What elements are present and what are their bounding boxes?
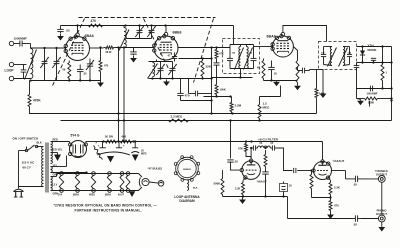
svg-text:600: 600 [122,135,127,139]
svg-text:22K: 22K [206,65,212,69]
filter capacitor C19 electrolytic [118,142,120,148]
V4 pins [69,143,72,146]
switch S1 [26,147,28,150]
variable capacitor C3 antenna tune [54,60,60,62]
svg-text:47K: 47K [219,52,224,56]
trimmer capacitor C11 oscillator [170,67,176,69]
resistor R18 plate load V5 [245,142,247,144]
triode V6 1/2 12AU7 output [314,162,332,180]
wire volume takeoff to audio [230,121,232,159]
IF transformer T2 shield box (dashed) [319,42,357,70]
common negative plate arc of C18/C19 [97,152,130,155]
crystal diode D1 [362,47,364,51]
svg-text:5Y4: 5Y4 [58,193,63,196]
wire grid line V1 [31,47,66,49]
variable capacitor C6 [89,59,91,62]
trimmer capacitor C8 RF tune [137,29,143,31]
svg-text:ON / OFF SWITCH: ON / OFF SWITCH [13,137,39,141]
svg-text:.05: .05 [66,29,71,33]
variable capacitor C2 antenna trim [42,60,48,62]
svg-text:6BA6: 6BA6 [105,193,112,196]
hi-cut hanging resistor [265,150,267,153]
svg-text:500K: 500K [214,182,221,186]
resistor R20 cathode V5 [242,181,244,183]
wire filter to V6 grid [277,148,292,171]
ground [100,81,102,83]
resistor R7 22K oscillator grid [179,58,212,60]
hi-cut hanging capacitor [262,171,268,173]
T1 tuning arrows [235,48,244,70]
rectifier tube V4 5Y4G [70,141,87,158]
svg-text:SHIELD: SHIELD [183,169,191,171]
antenna terminal A2 (loop) [9,62,13,66]
volume control R14 500K [356,89,358,99]
ground [357,99,361,100]
loop antenna lead coil [187,180,189,191]
trimmer capacitor C10 oscillator [158,67,164,69]
svg-text:470: 470 [104,65,109,68]
gang dashed diagonal to oscillator section [194,19,214,83]
RF interstage coil L2 [124,28,126,48]
T2 tuning arrows [328,48,337,67]
ground bus of input section [31,80,101,82]
capacitor C22b grid coupling [293,168,295,173]
filament string bottom rail [51,190,139,192]
svg-text:6BA6: 6BA6 [73,193,80,196]
wire switch to transformer primary [37,146,44,148]
capacitor C7 coupling to ground [133,48,135,51]
ground [381,222,383,225]
svg-text:5Y4 G: 5Y4 G [71,134,81,138]
wire under V3 [264,80,298,82]
oscillator coil L3 [153,63,155,77]
wire plate node to coil bottom [116,47,155,49]
antenna terminal A1 [9,41,13,45]
resistor R21 cathode V6 2.2K [329,178,331,181]
wire jack shield down [381,182,383,215]
wire under R8/C14 [216,68,218,83]
T2 secondary capacitor [347,53,352,55]
wire detector corner down [382,47,384,63]
svg-text:500K: 500K [368,101,374,105]
gang dashed diagonal to RF section [144,19,170,71]
B+ filter line [101,141,134,143]
capacitor C12 padder [177,92,183,94]
filament string top rail [51,176,57,178]
svg-text:2.2K: 2.2K [235,188,240,191]
audio cathode/ground bus [223,196,288,198]
wire RF tank bottom [127,38,152,40]
resistor R15 1K 2W filter [104,141,106,143]
trimmer capacitor C9 RF trim [149,29,155,31]
oscillator section ground wire [149,78,212,80]
svg-text:HI-CU FILTER: HI-CU FILTER [259,138,279,142]
hi-cut filter network [250,148,252,159]
resistor R13 1MEG detector load [382,63,384,65]
vacuum tube V3 6BA6 IF amplifier [272,36,293,57]
wire T2 secondary to detector [357,46,392,48]
resistor R12b screen feed 1.5K [316,87,318,89]
svg-text:*47 BULBS: *47 BULBS [148,167,163,171]
ground [297,85,299,86]
wire T1 secondary to V3 grid [254,46,264,48]
loop antenna bumps [197,172,200,175]
wire V2 cathode to osc section [156,60,158,62]
svg-text:MFD: MFD [141,153,147,156]
svg-text:115 V AC: 115 V AC [22,161,36,165]
vacuum tube V2 6BE6 converter [154,36,178,60]
capacitor C17 bypass [354,64,360,66]
tuning gang dashed link line [79,17,216,19]
T1 bottom internal wire [230,68,254,70]
capacitor C1 1500MMF antenna coupling [19,41,21,47]
ground [166,80,168,82]
capacitor C15b screen bypass [301,68,303,74]
T2 primary capacitor [321,53,326,55]
wire V1 top cap [77,26,79,34]
tuner output jack J1 [362,178,379,180]
AVC bus wire (upper) [30,113,317,115]
vacuum tube V1 6BA6 RF amplifier [66,37,90,61]
T1 secondary capacitor [251,57,257,59]
svg-text:*27KΩ RESISTOR OPTIONAL ON BAN: *27KΩ RESISTOR OPTIONAL ON BAND WIDTH CO… [54,204,158,208]
svg-text:RED-YEL: RED-YEL [52,149,63,152]
svg-text:6BA6: 6BA6 [85,34,94,38]
resistor R1 470K AVC to antenna coil [29,81,31,93]
phono line [287,197,289,219]
filament ground [129,191,136,197]
T2 secondary return ground [322,70,324,93]
pilot lamp B1 [139,174,143,178]
heater V4 [60,172,64,176]
IF transformer T1 shield box (dashed) [223,39,260,74]
ground [242,198,244,200]
svg-text:OUTPUT: OUTPUT [376,212,387,216]
svg-text:1.5K: 1.5K [319,92,325,96]
AC line box left side [18,151,20,187]
wire terminal A3 to ground bus [14,78,31,80]
capacitor C18a 100MMF [369,86,371,92]
resistor R16 600 ohm filter [119,141,121,143]
wire AVC riser at right [391,47,393,121]
svg-text:YEL: YEL [53,165,58,168]
T1 primary winding [239,47,241,69]
wire riser B+ from coil node [118,48,120,114]
svg-text:1500MMF: 1500MMF [14,37,28,41]
capacitor C13b 47MMF osc grid [172,56,177,58]
svg-text:100K: 100K [220,88,226,92]
T3 6.3V filament winding [51,177,53,191]
plate supply line over V1 [61,25,234,27]
capacitor C13 [194,91,196,97]
wire V6 plate output [332,170,346,172]
gang dashed diagonal to antenna section [53,19,85,86]
capacitor C21 coupling to audio [227,159,233,161]
wire V2 plate to T1 [178,47,230,49]
wire HV winding to V4 plate [51,141,70,143]
svg-text:6.3 V: 6.3 V [52,184,58,187]
T3 center tap ground [51,152,58,154]
capacitor C26 hi-cut [271,145,273,150]
svg-text:½12AU7: ½12AU7 [333,159,345,163]
svg-text:PHONO: PHONO [377,208,387,212]
T3 HV secondary [51,142,53,164]
svg-text:.05: .05 [353,223,357,227]
svg-text:2.2M: 2.2M [235,104,242,108]
wire R1 to AVC bus [30,109,61,114]
wire aux node [204,96,231,98]
T1 primary capacitor [227,57,233,59]
T2 secondary winding [343,47,345,66]
capacitor C5 cathode bypass [77,68,83,70]
svg-text:10: 10 [289,184,293,188]
bus wire (lower) to volume control [61,120,392,122]
ground [330,213,332,215]
capacitor C16 IF filter [371,57,376,59]
resistor R3 470 plate decoupling [87,25,89,27]
T3 core [45,143,47,193]
T1 top internal wire [230,44,254,46]
wire T1 bottom B+ [240,69,242,78]
T3 rectifier filament winding [51,167,53,173]
resistor R19 V6 grid [311,173,313,175]
wire plate feed down from line [233,26,235,45]
ground under V3 cathode [276,81,278,82]
svg-text:47K: 47K [238,147,243,151]
resistor R12 screen [297,59,299,61]
optional 27K resistor (asterisk) [94,148,101,158]
svg-text:470: 470 [334,204,339,208]
svg-text:+: + [98,144,100,148]
wire cathode feedback [312,197,331,199]
wire V2 top cap [165,26,167,33]
svg-text:6AU7: 6AU7 [118,193,125,196]
triode V5 1/2 6AU7 audio amplifier [242,161,261,180]
resistor R6 plate load V1 [90,47,104,49]
svg-text:XTAL: XTAL [368,44,375,48]
svg-text:BLK: BLK [37,142,42,145]
resistor R8 IF screen dropping [216,48,218,50]
resistor R8b screen divider [216,83,218,85]
wire V3 grid-cap plate loop to T2 [283,26,327,42]
svg-text:.05: .05 [83,73,87,76]
svg-text:3.3 MEG: 3.3 MEG [171,115,184,119]
heater V3 [108,172,112,176]
svg-text:MEG: MEG [263,106,271,110]
wire oscillator B+ riser [211,48,213,114]
resistor R10 1.2MEG AVC [260,96,264,98]
wire B+ riser to filter [118,114,120,142]
wire B+ to T2 primary [316,70,318,87]
svg-text:+: + [123,144,125,148]
power transformer T3 primary [42,147,44,187]
wire screen riser to filter [123,121,125,142]
antenna coil L1 (adjustable) [31,49,33,79]
capacitor C24 phono coupling [354,215,356,221]
resistor R5 470K [100,48,102,59]
capacitor C25 hi-cut [252,145,254,150]
capacitor C1b loop padding [21,69,27,71]
filter capacitor C18 electrolytic [102,142,104,148]
wire B+ to V6 plate [322,142,324,160]
wire riser AVC from coil node [123,48,125,121]
T1 secondary winding [247,47,249,69]
svg-text:6BE6: 6BE6 [173,31,182,35]
capacitor C23 output coupling [354,176,356,182]
heater V5a [120,172,124,176]
components under V3: resistor R11 cathode [263,59,265,61]
AC plug [18,186,20,189]
components under V1: resistor R4 cathode [68,61,70,63]
svg-text:6BE6: 6BE6 [89,194,95,196]
capacitor C4 screen bypass with ground [60,26,62,28]
svg-text:FURTHER INSTRUCTIONS IN MANUAL: FURTHER INSTRUCTIONS IN MANUAL. [75,209,142,213]
svg-text:DIODE: DIODE [368,48,377,52]
svg-text:470: 470 [185,94,190,98]
svg-text:470: 470 [91,19,97,23]
svg-text:.02: .02 [234,160,238,164]
wire C1 to coil L1 [30,44,32,49]
wire detector load node [357,62,392,64]
wire V4 cathode output to filter [85,142,87,144]
filter capacitor C20 electrolytic 20MFD [134,142,136,148]
svg-text:BLK: BLK [193,188,198,190]
wire V4 filament taps [51,166,67,168]
junctions on ground bus [68,79,70,81]
antenna terminal A3 (gnd) [9,76,13,80]
pilot lamp B2 [158,181,164,187]
heater V5b [126,172,130,176]
loop antenna diagram circle [176,157,199,180]
wire C21 to V5 grid [231,164,241,171]
phono output jack J2 [362,218,379,220]
resistor R2 3.3MEG in AVC bus [167,120,169,122]
svg-text:100 MMF: 100 MMF [367,91,378,95]
svg-text:60 CY: 60 CY [23,166,31,170]
T2 primary winding [330,47,332,66]
resistor R22 470 [330,199,332,201]
svg-text:470K: 470K [33,99,41,103]
svg-text:LOOP: LOOP [5,69,15,73]
electrolytic C22 10MFD [280,184,288,192]
svg-text:68 W: 68 W [106,51,112,54]
svg-text:OUTPUT: OUTPUT [376,172,387,176]
resistor R9 2.2MEG [231,97,233,101]
svg-text:DIAGRAM: DIAGRAM [179,199,195,203]
svg-text:2.2K: 2.2K [334,186,340,190]
svg-text:TUNABLE: TUNABLE [375,169,388,173]
heater V2 [92,172,96,176]
B+ line to audio [134,141,323,143]
svg-text:.05: .05 [353,183,357,187]
capacitor C15 cathode bypass [268,66,274,68]
svg-text:1K 2W: 1K 2W [105,135,114,139]
heater V1 [76,172,80,176]
capacitor C14 screen bypass [214,62,220,64]
wire detector output line [356,71,358,89]
wire V3 bottom node [260,96,281,98]
svg-text:6BA6: 6BA6 [267,35,276,39]
resistor R17 500K grid leak [222,177,224,179]
wire terminal A2 to L1 tap [14,64,27,66]
inductor L5 hi-cut coil [258,146,271,148]
